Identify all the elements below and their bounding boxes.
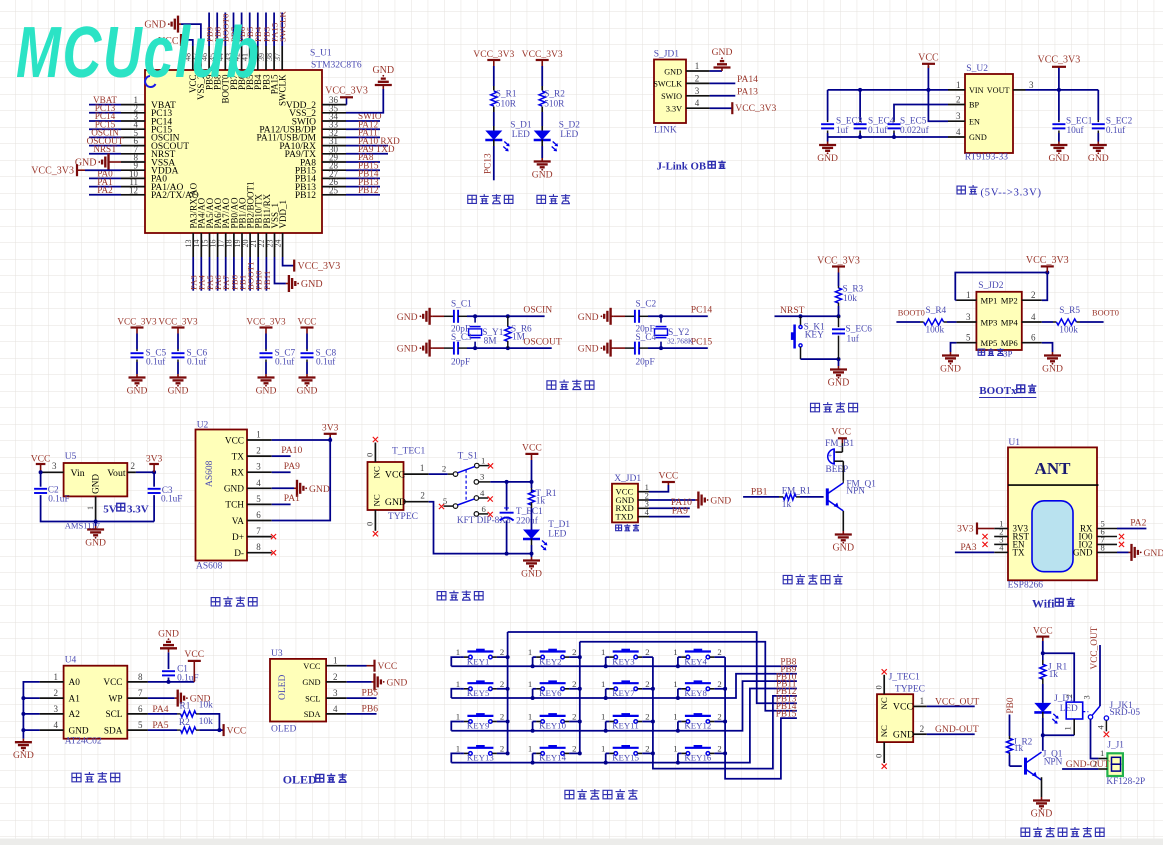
svg-text:1: 1 — [601, 647, 605, 657]
svg-text:D-: D- — [234, 549, 244, 559]
svg-text:RX: RX — [231, 469, 244, 479]
svg-text:GND: GND — [1073, 547, 1093, 557]
svg-text:3: 3 — [956, 111, 961, 121]
svg-text:S_C2: S_C2 — [636, 299, 657, 309]
svg-text:2: 2 — [717, 679, 721, 689]
svg-text:5: 5 — [138, 720, 143, 730]
svg-text:2: 2 — [956, 95, 961, 105]
svg-text:S_R3: S_R3 — [843, 284, 864, 294]
svg-text:GND: GND — [817, 153, 838, 164]
svg-text:PA3: PA3 — [960, 542, 976, 553]
svg-text:S_U1: S_U1 — [310, 49, 332, 59]
svg-text:1k: 1k — [1049, 670, 1059, 680]
svg-text:1k: 1k — [536, 497, 546, 507]
svg-text:8: 8 — [1101, 542, 1105, 552]
svg-text:2: 2 — [442, 464, 446, 474]
svg-text:2: 2 — [717, 743, 721, 753]
svg-text:BP: BP — [969, 101, 979, 110]
svg-text:2: 2 — [333, 672, 338, 682]
svg-text:OLED: OLED — [283, 773, 317, 787]
svg-text:(5V-->3.3V): (5V-->3.3V) — [981, 188, 1042, 199]
svg-text:S_D1: S_D1 — [510, 120, 532, 130]
svg-text:1: 1 — [920, 696, 925, 706]
svg-text:12: 12 — [129, 185, 138, 195]
svg-text:6: 6 — [1031, 333, 1036, 343]
svg-text:20pF: 20pF — [451, 357, 470, 367]
svg-text:VCC: VCC — [1033, 625, 1053, 636]
svg-text:GND: GND — [710, 496, 731, 507]
svg-text:SDA: SDA — [304, 710, 321, 719]
svg-text:GND: GND — [578, 312, 599, 323]
svg-text:4: 4 — [480, 488, 485, 498]
svg-text:MP3: MP3 — [981, 317, 998, 327]
svg-text:VCC: VCC — [184, 649, 204, 660]
svg-text:6: 6 — [138, 704, 143, 714]
svg-text:PA9: PA9 — [672, 505, 688, 516]
svg-text:1: 1 — [528, 712, 532, 722]
svg-text:VCC_3V3: VCC_3V3 — [117, 317, 157, 327]
svg-text:J_TEC1: J_TEC1 — [889, 672, 920, 682]
svg-text:2: 2 — [131, 461, 136, 471]
svg-text:10k: 10k — [199, 717, 213, 727]
svg-text:PA9: PA9 — [284, 461, 300, 472]
svg-text:1: 1 — [54, 672, 59, 682]
svg-text:BOOTx: BOOTx — [979, 385, 1017, 397]
svg-text:25: 25 — [329, 185, 339, 195]
svg-text:1uf: 1uf — [836, 125, 849, 136]
svg-text:J-Link OB: J-Link OB — [657, 161, 707, 173]
svg-text:1: 1 — [601, 712, 605, 722]
svg-text:KEY13: KEY13 — [467, 753, 494, 763]
svg-text:GND: GND — [940, 364, 961, 375]
svg-text:GND: GND — [69, 726, 89, 736]
svg-text:3: 3 — [480, 472, 484, 482]
svg-text:3V3: 3V3 — [957, 524, 974, 535]
svg-text:0.1uf: 0.1uf — [187, 357, 207, 368]
svg-text:3V3: 3V3 — [322, 423, 339, 434]
svg-text:1k: 1k — [782, 500, 792, 510]
svg-text:GND: GND — [828, 378, 850, 389]
svg-text:KEY: KEY — [805, 330, 824, 340]
svg-text:NRST: NRST — [780, 305, 805, 316]
svg-text:VCC: VCC — [298, 317, 317, 327]
svg-text:S_C1: S_C1 — [451, 299, 472, 309]
svg-text:5: 5 — [966, 333, 971, 343]
svg-text:U1: U1 — [1008, 438, 1020, 448]
svg-text:1: 1 — [601, 743, 605, 753]
svg-text:S_EC6: S_EC6 — [846, 325, 873, 335]
svg-text:2: 2 — [572, 743, 576, 753]
svg-text:2: 2 — [645, 743, 649, 753]
svg-text:+: + — [828, 451, 832, 460]
svg-text:R1: R1 — [180, 702, 191, 712]
svg-text:AMS1117: AMS1117 — [65, 520, 101, 530]
svg-text:4: 4 — [256, 478, 261, 488]
svg-text:S_JD2: S_JD2 — [978, 281, 1004, 291]
svg-text:5V: 5V — [103, 503, 117, 515]
svg-text:MP6: MP6 — [1001, 338, 1019, 348]
svg-text:PB6: PB6 — [362, 703, 379, 714]
svg-text:BOOT0: BOOT0 — [1092, 308, 1119, 317]
svg-text:100k: 100k — [1059, 326, 1078, 336]
svg-text:AS608: AS608 — [196, 562, 223, 572]
svg-text:6: 6 — [482, 504, 487, 514]
svg-text:3V3: 3V3 — [146, 453, 163, 464]
svg-text:2: 2 — [717, 647, 721, 657]
svg-text:4: 4 — [695, 98, 700, 108]
svg-text:GND: GND — [1042, 364, 1063, 375]
svg-text:NC: NC — [372, 466, 382, 478]
svg-text:GND: GND — [1049, 153, 1070, 164]
svg-text:OLED: OLED — [278, 675, 288, 700]
svg-text:GND: GND — [893, 730, 914, 741]
svg-text:3: 3 — [54, 704, 59, 714]
svg-text:GND: GND — [1144, 548, 1163, 559]
svg-text:0.022uf: 0.022uf — [900, 125, 930, 136]
svg-text:3: 3 — [333, 688, 338, 698]
svg-text:VCC: VCC — [522, 443, 542, 454]
svg-text:1: 1 — [1062, 726, 1072, 730]
svg-text:A0: A0 — [69, 678, 81, 688]
svg-text:SWCLK: SWCLK — [278, 74, 288, 106]
svg-text:0.1uf: 0.1uf — [275, 357, 295, 368]
svg-text:VCC: VCC — [385, 469, 405, 480]
svg-text:1: 1 — [528, 679, 532, 689]
svg-text:KEY6: KEY6 — [539, 688, 562, 698]
svg-text:GND: GND — [385, 497, 406, 508]
svg-text:NC: NC — [879, 725, 889, 737]
svg-text:2: 2 — [572, 712, 576, 722]
svg-text:PA4: PA4 — [152, 704, 168, 715]
svg-text:1: 1 — [528, 647, 532, 657]
svg-text:1: 1 — [420, 463, 425, 473]
svg-text:2: 2 — [54, 688, 59, 698]
svg-text:2: 2 — [500, 647, 504, 657]
svg-text:2: 2 — [645, 712, 649, 722]
svg-text:1uf: 1uf — [847, 334, 860, 345]
svg-text:Vin: Vin — [71, 468, 85, 479]
svg-text:SWCLK: SWCLK — [278, 11, 288, 42]
svg-text:AT24C02: AT24C02 — [65, 737, 102, 747]
svg-text:BEEP: BEEP — [826, 465, 849, 475]
svg-text:VA: VA — [232, 517, 245, 527]
svg-text:1: 1 — [673, 743, 677, 753]
svg-text:VCC_3V3: VCC_3V3 — [246, 317, 286, 327]
svg-text:VCC: VCC — [303, 662, 321, 671]
svg-text:PB15: PB15 — [776, 709, 797, 719]
svg-text:SWCLK: SWCLK — [653, 80, 682, 89]
svg-text:3: 3 — [256, 462, 261, 472]
svg-text:BOOT0: BOOT0 — [898, 308, 925, 317]
svg-text:KEY15: KEY15 — [612, 753, 639, 763]
svg-text:SCL: SCL — [305, 694, 320, 703]
svg-text:0.1uF: 0.1uF — [177, 673, 198, 683]
svg-text:MCUclub: MCUclub — [16, 11, 261, 93]
svg-text:TXD: TXD — [616, 512, 634, 522]
svg-text:1: 1 — [528, 743, 532, 753]
svg-text:PC13: PC13 — [483, 153, 493, 174]
svg-text:SDA: SDA — [104, 726, 123, 736]
svg-text:510R: 510R — [496, 100, 517, 110]
svg-text:GND: GND — [301, 279, 323, 290]
svg-text:4: 4 — [333, 704, 338, 714]
svg-text:TX: TX — [232, 452, 245, 462]
svg-text:S_D2: S_D2 — [559, 120, 581, 130]
svg-text:2: 2 — [1031, 290, 1036, 300]
svg-text:4: 4 — [54, 720, 59, 730]
svg-text:0.1uF: 0.1uF — [48, 494, 69, 504]
svg-text:KEY1: KEY1 — [467, 656, 489, 666]
svg-text:LINK: LINK — [654, 126, 677, 136]
svg-text:OSCIN: OSCIN — [523, 304, 552, 315]
svg-text:5: 5 — [443, 496, 447, 506]
svg-text:VCC_3V3: VCC_3V3 — [31, 166, 74, 177]
svg-text:VCC: VCC — [831, 427, 851, 438]
svg-text:J_J1: J_J1 — [1107, 741, 1124, 751]
svg-text:GND: GND — [387, 677, 408, 688]
svg-text:GND: GND — [969, 133, 987, 142]
svg-text:510R: 510R — [544, 100, 565, 110]
svg-text:TCH: TCH — [225, 501, 244, 511]
svg-text:VCC_3V3: VCC_3V3 — [1026, 255, 1069, 266]
svg-text:2: 2 — [717, 712, 721, 722]
svg-text:2: 2 — [500, 743, 504, 753]
svg-text:VCC_3V3: VCC_3V3 — [522, 49, 563, 60]
svg-text:OLED: OLED — [271, 725, 296, 735]
svg-text:PA1: PA1 — [284, 493, 300, 504]
svg-text:MP2: MP2 — [1001, 296, 1018, 306]
svg-text:GND: GND — [1031, 809, 1053, 820]
svg-text:T_TEC1: T_TEC1 — [392, 447, 425, 457]
svg-text:PA5: PA5 — [152, 720, 168, 731]
svg-text:GND: GND — [712, 47, 733, 58]
svg-text:TYPEC: TYPEC — [895, 684, 925, 694]
svg-text:1: 1 — [86, 506, 95, 510]
svg-text:Wifi: Wifi — [1032, 597, 1055, 611]
svg-text:VCC: VCC — [31, 453, 51, 464]
svg-text:T_S1: T_S1 — [458, 451, 478, 461]
svg-text:ESP8266: ESP8266 — [1008, 581, 1044, 591]
svg-text:24: 24 — [273, 240, 282, 248]
svg-text:1: 1 — [333, 656, 338, 666]
svg-text:VCC_3V3: VCC_3V3 — [473, 49, 514, 60]
svg-text:2: 2 — [695, 73, 700, 83]
svg-text:U5: U5 — [65, 452, 77, 462]
svg-text:U2: U2 — [197, 421, 209, 431]
svg-text:D+: D+ — [232, 533, 244, 543]
svg-text:VCC_3V3: VCC_3V3 — [298, 261, 341, 272]
svg-text:VOUT: VOUT — [987, 86, 1010, 95]
svg-text:VCC_3V3: VCC_3V3 — [325, 86, 368, 97]
svg-text:GND-OUT: GND-OUT — [935, 724, 979, 735]
svg-text:1: 1 — [456, 647, 460, 657]
svg-text:SWIO: SWIO — [661, 92, 682, 101]
svg-text:0: 0 — [365, 453, 375, 457]
svg-text:GND: GND — [832, 543, 854, 554]
svg-text:VCC: VCC — [378, 661, 398, 672]
svg-text:VCC_3V3: VCC_3V3 — [1038, 55, 1081, 66]
svg-text:2: 2 — [645, 647, 649, 657]
svg-text:GND: GND — [13, 750, 34, 761]
svg-text:8: 8 — [256, 542, 261, 552]
svg-text:PB11: PB11 — [262, 271, 272, 290]
svg-text:1: 1 — [966, 290, 971, 300]
svg-text:2: 2 — [645, 679, 649, 689]
svg-text:GND: GND — [302, 678, 320, 687]
svg-text:1: 1 — [1100, 748, 1104, 758]
svg-text:0: 0 — [873, 685, 883, 689]
svg-text:5: 5 — [256, 494, 261, 504]
svg-text:KEY16: KEY16 — [684, 753, 711, 763]
svg-text:3: 3 — [695, 86, 700, 96]
svg-text:VIN: VIN — [969, 86, 984, 95]
svg-text:3: 3 — [966, 312, 971, 322]
svg-text:1: 1 — [456, 743, 460, 753]
svg-text:LED: LED — [560, 130, 578, 140]
svg-text:0: 0 — [365, 522, 375, 526]
svg-text:100k: 100k — [926, 326, 945, 336]
svg-text:GND: GND — [309, 484, 330, 495]
svg-text:37: 37 — [273, 53, 282, 61]
svg-text:GND: GND — [224, 485, 244, 495]
svg-text:VCC_OUT: VCC_OUT — [935, 696, 979, 707]
svg-text:VCC_OUT: VCC_OUT — [1090, 626, 1100, 669]
svg-text:GND: GND — [85, 538, 106, 549]
svg-text:X_JD1: X_JD1 — [614, 474, 641, 484]
svg-text:VCC: VCC — [227, 725, 247, 736]
svg-text:AS608: AS608 — [205, 460, 215, 487]
svg-text:VCC: VCC — [659, 471, 679, 482]
svg-text:VCC: VCC — [918, 53, 939, 64]
svg-text:3.3V: 3.3V — [666, 105, 682, 114]
svg-text:1M: 1M — [512, 333, 525, 343]
svg-text:1: 1 — [956, 80, 961, 90]
svg-text:NPN: NPN — [846, 487, 865, 497]
svg-text:S_R5: S_R5 — [1059, 306, 1080, 316]
svg-text:1: 1 — [673, 647, 677, 657]
svg-text:ANT: ANT — [1035, 459, 1072, 478]
svg-text:GND: GND — [91, 474, 101, 494]
svg-text:GND: GND — [397, 344, 418, 355]
svg-text:TX: TX — [1013, 547, 1025, 557]
svg-text:7: 7 — [256, 526, 261, 536]
svg-text:U4: U4 — [65, 656, 77, 666]
svg-text:KEY9: KEY9 — [467, 721, 490, 731]
svg-text:PA14: PA14 — [737, 74, 758, 85]
svg-text:GND: GND — [168, 386, 189, 397]
svg-text:VCC: VCC — [225, 436, 244, 446]
svg-text:0.1uf: 0.1uf — [146, 357, 166, 368]
svg-text:MP5: MP5 — [981, 338, 998, 348]
svg-text:0.1uf: 0.1uf — [316, 357, 336, 368]
svg-text:A1: A1 — [69, 694, 81, 704]
svg-text:PC14: PC14 — [691, 304, 713, 315]
svg-text:GND: GND — [397, 312, 418, 323]
svg-text:10k: 10k — [199, 701, 213, 711]
svg-text:2: 2 — [500, 712, 504, 722]
svg-text:KEY3: KEY3 — [612, 656, 635, 666]
svg-text:VCC_3V3: VCC_3V3 — [817, 256, 860, 267]
svg-text:GND: GND — [158, 628, 179, 639]
svg-text:LED: LED — [512, 130, 530, 140]
svg-text:NC: NC — [879, 697, 889, 709]
svg-text:8: 8 — [138, 672, 143, 682]
svg-text:3.3V: 3.3V — [127, 503, 149, 515]
svg-text:S_R2: S_R2 — [544, 89, 565, 99]
svg-text:2: 2 — [572, 647, 576, 657]
svg-text:8M: 8M — [484, 337, 497, 347]
svg-text:S_R4: S_R4 — [926, 306, 947, 316]
svg-text:U3: U3 — [271, 649, 283, 659]
svg-text:3: 3 — [1082, 695, 1092, 699]
svg-text:KEY5: KEY5 — [467, 688, 490, 698]
svg-text:3P: 3P — [1003, 349, 1012, 359]
svg-text:OSCOUT: OSCOUT — [523, 336, 562, 347]
svg-text:SRD-05: SRD-05 — [1110, 708, 1141, 718]
svg-text:KEY2: KEY2 — [539, 656, 561, 666]
svg-text:10uf: 10uf — [1067, 125, 1085, 136]
svg-text:GND: GND — [532, 170, 553, 181]
svg-text:RT9193-33: RT9193-33 — [965, 153, 1008, 163]
svg-text:VCC_3V3: VCC_3V3 — [158, 317, 198, 327]
svg-text:LED: LED — [548, 529, 566, 539]
svg-text:2: 2 — [572, 679, 576, 689]
svg-text:S_U2: S_U2 — [966, 64, 988, 74]
svg-text:Vout: Vout — [107, 468, 126, 479]
svg-text:STM32C8T6: STM32C8T6 — [311, 61, 362, 71]
svg-text:KEY10: KEY10 — [539, 721, 566, 731]
svg-text:1: 1 — [695, 61, 700, 71]
svg-text:VCC_3V3: VCC_3V3 — [735, 103, 776, 114]
svg-text:SCL: SCL — [105, 710, 122, 720]
svg-text:220uf: 220uf — [516, 515, 539, 526]
svg-text:FM_R1: FM_R1 — [782, 486, 811, 496]
svg-text:GND: GND — [297, 386, 318, 397]
svg-text:NC: NC — [372, 494, 382, 506]
svg-text:PB12: PB12 — [295, 191, 316, 201]
svg-text:GND: GND — [127, 386, 148, 397]
svg-text:KEY11: KEY11 — [612, 721, 639, 731]
svg-text:0.1uF: 0.1uF — [161, 494, 182, 504]
svg-text:WP: WP — [109, 694, 123, 704]
svg-text:VCC: VCC — [103, 678, 122, 688]
svg-text:FM_B1: FM_B1 — [825, 439, 854, 449]
svg-text:PA2: PA2 — [1130, 518, 1146, 529]
svg-text:2: 2 — [256, 446, 261, 456]
svg-text:GND: GND — [664, 67, 682, 76]
svg-text:1: 1 — [673, 712, 677, 722]
svg-text:0: 0 — [873, 754, 883, 758]
svg-text:3: 3 — [52, 461, 57, 471]
svg-text:EN: EN — [969, 117, 980, 126]
svg-text:KEY4: KEY4 — [684, 656, 707, 666]
svg-text:PB1: PB1 — [751, 486, 768, 497]
svg-text:4: 4 — [956, 127, 961, 137]
svg-text:32.768K: 32.768K — [667, 337, 694, 346]
svg-text:10k: 10k — [843, 294, 857, 304]
svg-text:0.1uf: 0.1uf — [868, 125, 888, 136]
svg-text:GND: GND — [578, 344, 599, 355]
svg-text:1k: 1k — [1014, 744, 1024, 754]
svg-text:0.1uf: 0.1uf — [1106, 125, 1126, 136]
svg-text:S_C3: S_C3 — [451, 333, 472, 343]
svg-text:1: 1 — [673, 679, 677, 689]
svg-text:4: 4 — [645, 507, 650, 517]
svg-text:20pF: 20pF — [636, 357, 655, 367]
svg-text:PC15: PC15 — [691, 336, 713, 347]
svg-text:6: 6 — [256, 510, 261, 520]
svg-text:1: 1 — [456, 712, 460, 722]
